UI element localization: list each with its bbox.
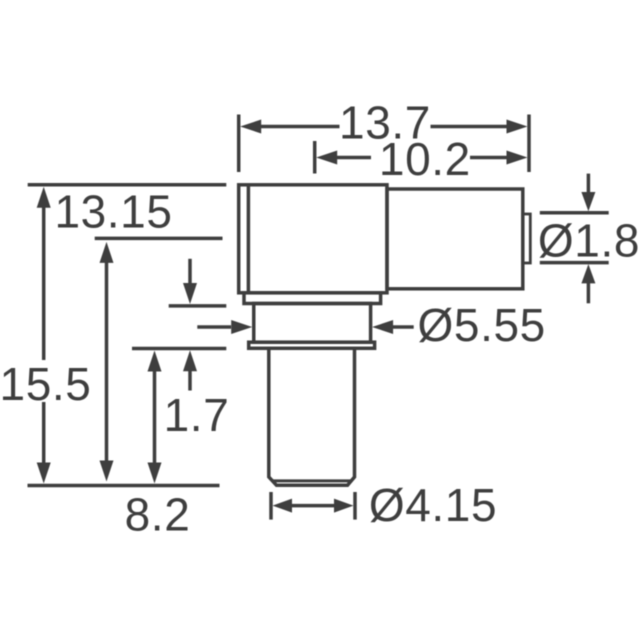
dim 15.5 shaft upper (42, 206, 46, 360)
svg-text:1.7: 1.7 (164, 389, 230, 441)
dim Ø4.15 left tick (269, 492, 273, 520)
dim Ø4.15 right tick (353, 492, 357, 520)
arrowhead 13.15 top (100, 242, 114, 263)
dim Ø5.55 right arrow shaft (392, 325, 414, 329)
arrowhead Ø4.15 left (273, 499, 293, 513)
svg-text:13.15: 13.15 (54, 186, 172, 238)
arrowhead Ø1.8 up (581, 264, 595, 283)
dim Ø1.8 upper arrow shaft (587, 174, 591, 193)
svg-text:10.2: 10.2 (379, 133, 471, 185)
mounting shaft outline with chamfered tip (269, 348, 355, 485)
dim 8.2 shaft (153, 369, 157, 465)
center pin at right (523, 214, 531, 263)
dim 13.7/10.2 right extension line (527, 115, 531, 173)
dim Ø1.8 top line (540, 211, 609, 215)
arrowhead 1.7 down (183, 283, 197, 304)
body left cap inner line (247, 186, 251, 291)
dim 10.2 left tick (313, 141, 317, 174)
arrowhead Ø5.55 left (points right) (231, 320, 252, 334)
arrowhead Ø1.8 down (581, 192, 595, 211)
svg-text:15.5: 15.5 (0, 358, 91, 410)
arrowhead Ø5.55 right (points left) (372, 320, 393, 334)
arrowhead Ø4.15 right (334, 499, 354, 513)
arrowhead 10.2 right (507, 151, 528, 165)
dim 13.7 left extension line (237, 115, 241, 173)
dim 10.2 left shaft (337, 156, 371, 160)
arrowhead 13.15 bottom (100, 461, 114, 482)
arrowhead 13.7 left (240, 120, 261, 134)
svg-text:8.2: 8.2 (125, 489, 191, 541)
lower flange (249, 342, 375, 348)
arrowhead 15.5 top (37, 187, 51, 208)
dim 1.7 upper arrow shaft (188, 259, 192, 284)
svg-text:Ø4.15: Ø4.15 (369, 479, 497, 531)
dim Ø4.15 shaft (291, 504, 335, 508)
flange below body (244, 293, 381, 304)
dim Ø1.8 lower arrow shaft (587, 283, 591, 303)
arrowhead 13.7 right (507, 120, 528, 134)
flange bottom reference line (169, 304, 227, 308)
dim 10.2 right shaft (470, 156, 507, 160)
dim 13.7 right shaft (431, 125, 507, 129)
arrowhead 15.5 bottom (37, 463, 51, 484)
bottom reference line (28, 484, 220, 488)
top reference line (body top level) (28, 183, 227, 187)
svg-text:Ø5.55: Ø5.55 (418, 299, 546, 351)
axis reference line (95, 237, 223, 241)
arrowhead 8.2 top (148, 351, 162, 372)
nut section (Ø5.55) (254, 304, 371, 343)
dim Ø1.8 bottom line (540, 261, 609, 265)
svg-text:Ø1.8: Ø1.8 (538, 215, 640, 267)
seating plane reference line (132, 347, 226, 351)
shaft tip inner line (273, 479, 352, 482)
arrowhead 1.7 up (183, 350, 197, 371)
arrowhead 8.2 bottom (148, 463, 162, 484)
connector main body (left block) (239, 185, 387, 293)
arrowhead 10.2 left (316, 151, 337, 165)
dim 1.7 lower arrow shaft (188, 370, 192, 391)
dim 13.15 shaft (105, 261, 109, 463)
dim Ø5.55 left arrow shaft (197, 325, 231, 329)
dim 13.7 left shaft (261, 125, 340, 129)
connector barrel (right cylinder) (387, 189, 523, 289)
dim 15.5 shaft lower (42, 402, 46, 465)
